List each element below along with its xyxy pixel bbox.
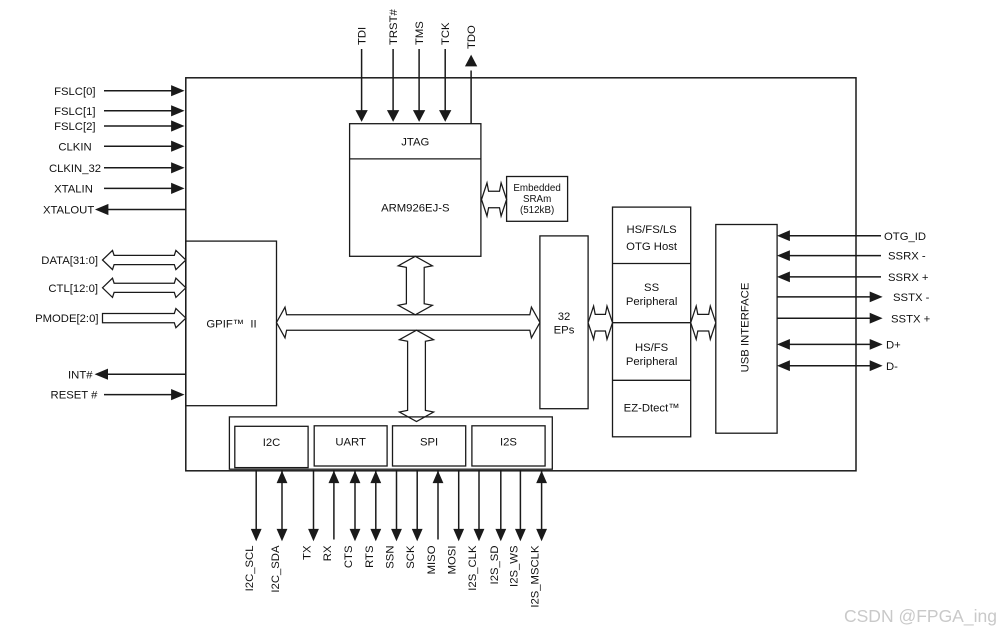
svg-text:CSDN @FPGA_ing: CSDN @FPGA_ing (844, 606, 997, 627)
divider SS Peripheral / HS-FS Peripheral (613, 322, 691, 324)
svg-text:I2C: I2C (263, 437, 281, 449)
bus arrow ARM down to central bus (vertical hollow) (398, 256, 432, 315)
block serial peripherals container (229, 417, 552, 469)
svg-text:I2S_WS: I2S_WS (508, 545, 520, 587)
svg-text:TRST#: TRST# (388, 9, 400, 45)
svg-text:FSLC[0]: FSLC[0] (54, 86, 95, 98)
svg-text:EPs: EPs (554, 324, 575, 336)
svg-text:RTS: RTS (364, 545, 376, 568)
svg-text:OTG Host: OTG Host (626, 241, 678, 253)
svg-text:32: 32 (558, 311, 571, 323)
wire RX (input) (333, 470, 335, 540)
svg-text:USB INTERFACE: USB INTERFACE (740, 282, 752, 372)
wire TMS (input, into JTAG) (418, 49, 420, 112)
wire SSTX + (output from USB interface) (777, 317, 871, 319)
bus arrow USB stack to USB INTERFACE (bidirectional hollow) (691, 306, 716, 339)
wire SCK (output) (416, 470, 418, 530)
wire RTS (bidirectional) (375, 470, 377, 530)
wire I2S_SD (output) (500, 470, 502, 530)
block U-CPU JTAG+ARM926EJ-S outline (350, 124, 481, 257)
svg-text:SSTX -: SSTX - (893, 292, 930, 304)
svg-text:Peripheral: Peripheral (626, 296, 678, 308)
wire RESET # (input) (104, 394, 172, 396)
svg-text:JTAG: JTAG (401, 136, 429, 148)
svg-text:I2S_CLK: I2S_CLK (467, 545, 479, 591)
svg-text:(512kB): (512kB) (520, 205, 554, 216)
svg-text:TCK: TCK (440, 22, 452, 45)
svg-text:I2S_SD: I2S_SD (489, 546, 501, 585)
svg-text:HS/FS: HS/FS (635, 342, 669, 354)
svg-text:ARM926EJ-S: ARM926EJ-S (381, 203, 450, 215)
wire TDI (input, into JTAG) (361, 49, 363, 112)
divider line between JTAG and ARM sections (350, 158, 481, 160)
wire I2C_SCL (output) (255, 470, 257, 530)
svg-text:MISO: MISO (426, 545, 438, 574)
wire I2C_SDA (bidirectional) (281, 470, 283, 530)
svg-text:INT#: INT# (68, 369, 93, 381)
wire D+ (bidirectional USB data) (789, 343, 871, 345)
divider OTG Host / SS Peripheral (613, 263, 691, 265)
svg-text:MOSI: MOSI (447, 546, 459, 575)
svg-text:HS/FS/LS: HS/FS/LS (626, 224, 677, 236)
wire XTALOUT (output) (108, 209, 186, 211)
svg-text:SRAm: SRAm (523, 194, 551, 205)
svg-text:I2C_SCL: I2C_SCL (244, 546, 256, 592)
svg-text:RESET #: RESET # (51, 390, 99, 402)
svg-text:TDI: TDI (357, 27, 369, 45)
svg-text:Embedded: Embedded (513, 183, 560, 194)
svg-text:I2C_SDA: I2C_SDA (270, 545, 282, 593)
svg-text:DATA[31:0]: DATA[31:0] (41, 255, 98, 267)
block I2C (235, 426, 308, 467)
wire TDO (output, up from JTAG) (470, 71, 472, 124)
bus PMODE[2:0] (input hollow arrow) (103, 309, 186, 328)
chip boundary (main IC outline) (186, 78, 856, 471)
block USB engine stack outline (613, 207, 691, 437)
wire SSRX + (input to USB interface) (789, 276, 881, 278)
wire MISO (input) (437, 470, 439, 540)
svg-text:SPI: SPI (420, 437, 438, 449)
block USB INTERFACE (PHY) (716, 225, 777, 434)
wire CTS (bidirectional) (354, 470, 356, 530)
wire I2S_WS (output) (519, 470, 521, 530)
block GPIF II (186, 241, 277, 406)
svg-text:FSLC[1]: FSLC[1] (54, 106, 95, 118)
svg-text:D+: D+ (886, 340, 901, 352)
block UART (314, 426, 387, 466)
svg-text:XTALIN: XTALIN (54, 184, 93, 196)
svg-text:SSN: SSN (385, 546, 397, 569)
svg-text:CLKIN: CLKIN (58, 141, 91, 153)
block 32 EPs (endpoint buffers) (540, 236, 588, 409)
svg-text:PMODE[2:0]: PMODE[2:0] (35, 313, 98, 325)
block I2S (472, 426, 545, 466)
wire D- (bidirectional USB data) (789, 365, 871, 367)
wire I2S_CLK (output) (478, 470, 480, 530)
svg-text:SS: SS (644, 282, 660, 294)
wire SSRX - (input to USB interface) (789, 255, 881, 257)
wire TX (output) (313, 470, 315, 530)
divider HS-FS Peripheral / EZ-Dtect (613, 379, 691, 381)
svg-text:FSLC[2]: FSLC[2] (54, 121, 95, 133)
svg-text:TX: TX (302, 545, 314, 560)
svg-text:I2S: I2S (500, 437, 517, 449)
wire FSLC[1] (input) (104, 110, 172, 112)
wire TCK (input, into JTAG) (444, 49, 446, 112)
wire SSN (output) (396, 470, 398, 530)
svg-text:SSRX +: SSRX + (888, 272, 929, 284)
wire XTALIN (input) (104, 187, 172, 189)
bus arrow GPIF II to 32 EPs (wide bidirectional hollow) (277, 307, 540, 338)
bus arrow 32 EPs to USB stack (bidirectional hollow) (588, 306, 612, 339)
svg-text:CTS: CTS (343, 545, 355, 568)
svg-text:TDO: TDO (466, 25, 478, 49)
bus DATA[31:0] (bidirectional hollow arrow) (103, 250, 186, 269)
svg-text:Peripheral: Peripheral (626, 356, 678, 368)
wire I2S_MSCLK (bidirectional) (541, 470, 543, 530)
block SPI (393, 426, 466, 466)
bus arrow central bus down to serial peripherals (vertical hollow) (399, 330, 433, 421)
svg-text:OTG_ID: OTG_ID (884, 231, 926, 243)
svg-text:UART: UART (335, 437, 366, 449)
bus CTL[12:0] (bidirectional hollow arrow) (103, 278, 186, 297)
svg-text:SCK: SCK (405, 545, 417, 569)
svg-text:EZ-Dtect™: EZ-Dtect™ (624, 403, 680, 415)
wire CLKIN_32 (input) (104, 167, 172, 169)
wire INT# (output) (107, 373, 186, 375)
svg-text:SSRX -: SSRX - (888, 251, 926, 263)
wire FSLC[2] (input) (104, 125, 172, 127)
wire SSTX - (output from USB interface) (777, 296, 871, 298)
wire MOSI (output) (458, 470, 460, 530)
wire CLKIN (input) (104, 145, 172, 147)
svg-text:TMS: TMS (414, 21, 426, 45)
svg-text:RX: RX (322, 545, 334, 561)
svg-text:CTL[12:0]: CTL[12:0] (48, 283, 98, 295)
svg-text:I2S_MSCLK: I2S_MSCLK (530, 545, 542, 608)
svg-text:SSTX +: SSTX + (891, 313, 931, 325)
svg-text:GPIF™ II: GPIF™ II (206, 319, 256, 331)
svg-text:CLKIN_32: CLKIN_32 (49, 163, 101, 175)
wire FSLC[0] (input) (104, 90, 172, 92)
wire OTG_ID (input to USB interface) (789, 235, 881, 237)
svg-text:XTALOUT: XTALOUT (43, 205, 94, 217)
svg-text:D-: D- (886, 361, 898, 373)
wire TRST# (input, into JTAG) (392, 49, 394, 112)
bus arrow ARM926EJ-S to Embedded SRAm (bidirectional hollow) (482, 183, 507, 216)
block Embedded SRAm (512kB) (507, 177, 568, 222)
